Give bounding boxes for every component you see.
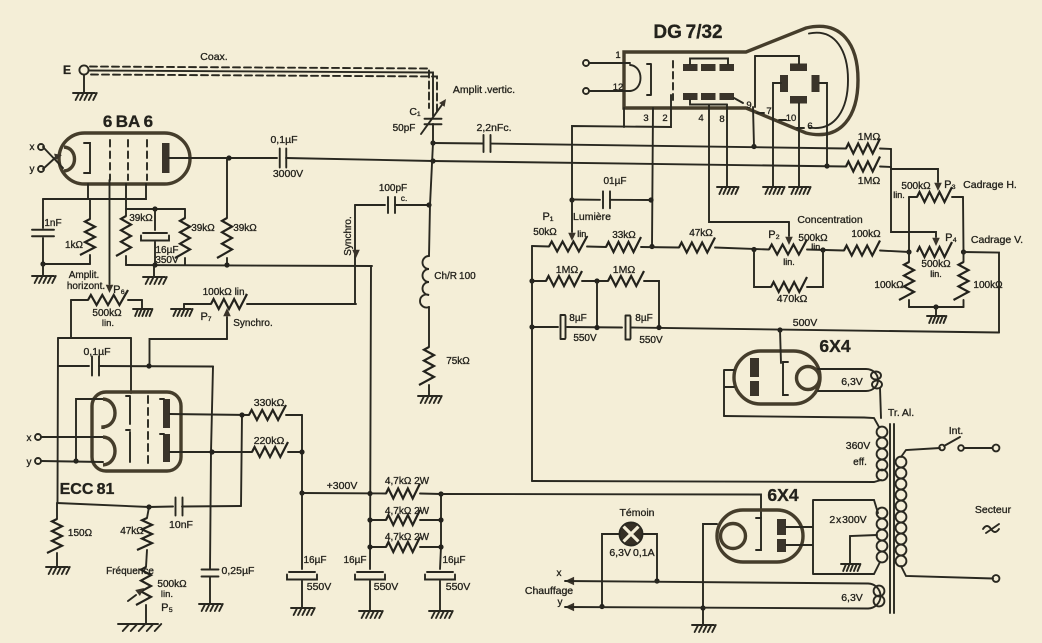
P5 wiper arrow (128, 595, 136, 601)
CRT screen inner face (809, 33, 848, 128)
capacitor 8uF 550V (a) (565, 316, 567, 338)
ground under E (83, 75, 85, 92)
svg-text:6,3V 0,1A: 6,3V 0,1A (609, 547, 654, 559)
wire P6-bus vertical (grid bias bus) (58, 337, 131, 339)
ECC81 lower anode plate (163, 434, 170, 462)
tube ECC81 envelope (92, 392, 181, 471)
CRT deflection plate bottom-3 (720, 93, 735, 100)
svg-text:P₁: P₁ (542, 211, 553, 223)
mains terminal bottom (993, 575, 1000, 582)
CRT bulb top plate link (755, 56, 799, 64)
coax shield dashed lines (90, 67, 437, 113)
potentiometer P5 500k lin (Frequence) (136, 567, 151, 605)
ground under 16uF c (429, 611, 453, 618)
6X4 lower cathode wire to ground (703, 524, 717, 624)
CRT deflection plate top-2 (701, 64, 716, 71)
capacitor 0,1uF (ECC81 grid) (58, 365, 89, 367)
resistor 33k (606, 237, 641, 252)
svg-text:50kΩ: 50kΩ (533, 227, 557, 238)
6X4 lower anode wires (786, 500, 880, 574)
heater loop right end (868, 584, 880, 609)
6X4 upper circle (797, 367, 820, 390)
tube 6BA6 envelope (59, 133, 190, 184)
svg-text:220kΩ: 220kΩ (254, 435, 285, 447)
choke Ch/R 100 (429, 143, 433, 256)
resistor 330k (170, 414, 249, 415)
terminal x of ECC81 (35, 434, 41, 440)
ECC81 upper anode plate (163, 399, 170, 428)
6X4 lower circle (721, 524, 746, 549)
CRT top plates link (690, 59, 728, 65)
ground pin8 (717, 187, 739, 194)
CRT deflection plate bottom-2 (701, 93, 716, 100)
CRT pin2 wire (wehnelt) (572, 95, 671, 200)
ground pin10 (789, 187, 811, 194)
svg-text:Synchro.: Synchro. (343, 216, 354, 255)
svg-text:P₃: P₃ (944, 179, 956, 191)
CRT bulb plate left (780, 75, 788, 92)
svg-text:47kΩ: 47kΩ (120, 526, 144, 537)
tube 6X4 lower envelope (717, 510, 803, 562)
CRT pin6 wire (820, 83, 828, 166)
svg-text:lin.: lin. (577, 229, 589, 239)
capacitor 01uF (wehnelt decoupling) (572, 199, 600, 201)
resistor 39k anode load (R-c) (226, 158, 228, 218)
svg-text:P₅: P₅ (161, 602, 173, 614)
svg-text:horizont.: horizont. (67, 281, 105, 292)
CRT wehnelt grid (647, 64, 651, 95)
CRT pin4 wire (focus) (709, 105, 789, 223)
resistor 47k (147, 507, 149, 518)
terminal y of ECC81 (35, 458, 41, 464)
CRT pin10 wire (798, 104, 800, 187)
CRT pin9 lead (734, 98, 743, 103)
wire line B: 0,1uF to 1M resistor (vert deflection line) (286, 158, 846, 167)
winding 2x300V (877, 508, 888, 519)
junction column after 4,7k (440, 494, 441, 569)
P1 wiper arrow from pin2 line (571, 200, 573, 232)
resistor 4,7k 2W (c) (370, 546, 386, 548)
svg-text:6,3V: 6,3V (841, 376, 863, 388)
capacitor 2,2nF (484, 135, 491, 152)
mains terminal top (993, 445, 1000, 452)
resistor 75k (419, 347, 434, 385)
screen bus wire (126, 208, 185, 210)
winding 360V eff (877, 427, 888, 438)
svg-text:c.: c. (401, 193, 408, 203)
svg-text:3: 3 (643, 113, 648, 124)
CRT cathode box line (623, 108, 625, 127)
6X4 lower plate 2 (777, 539, 786, 552)
winding 6,3V heater (874, 586, 885, 597)
svg-text:500kΩ: 500kΩ (901, 181, 931, 192)
6X4 upper heater stubs (724, 370, 734, 416)
ECC81 heater divider (dashed) (147, 396, 149, 467)
svg-text:x: x (557, 568, 562, 579)
svg-text:DG 7/32: DG 7/32 (653, 22, 722, 43)
6X4 upper anode wire (780, 330, 781, 363)
potentiometer P3 500k lin Cadrage H (909, 196, 917, 198)
svg-text:2: 2 (662, 113, 667, 124)
svg-text:Ch/R 100: Ch/R 100 (434, 271, 476, 282)
terminal x of 6BA6 (38, 144, 44, 150)
ECC81 grid line (126, 396, 130, 462)
svg-text:P₂: P₂ (768, 229, 780, 241)
ground under 150 (46, 567, 70, 574)
svg-text:6 BA 6: 6 BA 6 (103, 112, 153, 131)
ECC81 upper cathode (103, 399, 115, 429)
svg-text:Amplit.: Amplit. (69, 270, 100, 281)
wire +300V line to lower 6X4 anode (441, 494, 761, 518)
svg-text:Tr. Al.: Tr. Al. (888, 407, 914, 419)
svg-text:550V: 550V (307, 581, 332, 593)
CRT deflection plate top-3 (720, 64, 735, 71)
svg-text:550V: 550V (639, 335, 663, 346)
svg-text:7: 7 (766, 106, 771, 117)
6X4 upper cathode bracket (783, 362, 788, 395)
wire 1M junction down (596, 281, 598, 328)
lamp left lead (602, 534, 619, 607)
svg-text:50pF: 50pF (393, 123, 416, 134)
wire heater loop to 6,3V rect winding (880, 388, 881, 418)
svg-text:4,7kΩ 2W: 4,7kΩ 2W (385, 532, 430, 543)
potentiometer P1 50k lin Lumiere (532, 245, 549, 248)
ECC81 cathode wire (57, 503, 149, 507)
svg-text:1kΩ: 1kΩ (65, 240, 84, 251)
ground under 0,25uF (199, 604, 223, 611)
svg-text:100kΩ: 100kΩ (874, 280, 904, 291)
ground lower 6X4 cathode (692, 625, 716, 632)
CRT pin3 wire (cathode) (652, 108, 653, 247)
wire grid1 entry to ECC81 (130, 338, 132, 393)
svg-text:6,3V: 6,3V (841, 592, 863, 604)
CRT pin8 wire (726, 105, 728, 187)
resistor 47k (CRT chain) (679, 238, 715, 253)
svg-text:16µF: 16µF (443, 555, 466, 566)
svg-text:0,25µF: 0,25µF (222, 565, 255, 577)
6BA6 grid 1 electrode (84, 143, 90, 173)
capacitor 16uF 550V (b) (357, 571, 383, 573)
resistor 470k (754, 250, 771, 288)
primary winding (896, 457, 907, 468)
resistor 4,7k 2W (b) (370, 519, 386, 521)
ground under 16uF b (359, 611, 383, 618)
wire grid2 coupling down to 220k node (210, 367, 213, 570)
P2 wiper arrow (788, 222, 790, 236)
svg-text:ECC 81: ECC 81 (60, 481, 115, 498)
6BA6 anode plate (162, 143, 170, 173)
resistor 39k screen (R-a) (125, 209, 127, 216)
wire heater return to transformer (724, 416, 864, 418)
svg-text:8µF: 8µF (569, 313, 586, 324)
svg-text:y: y (558, 597, 563, 608)
svg-text:Concentration: Concentration (797, 214, 863, 226)
wire 500V rail (532, 326, 558, 328)
svg-text:100kΩ: 100kΩ (851, 229, 881, 240)
svg-text:550V: 550V (446, 581, 471, 593)
variable capacitor C1 50pF (425, 119, 442, 125)
capacitor 0,1uF 3000V (280, 149, 287, 168)
capacitor 1nF (42, 199, 44, 228)
resistor 1M filter (b) (608, 271, 644, 286)
potentiometer P4 500k lin Cadrage V (917, 242, 952, 257)
crossed input wires into 6BA6 cathode (43, 147, 63, 168)
long HT vertical (left) (531, 246, 533, 481)
svg-text:Témoin: Témoin (619, 507, 654, 519)
terminal y of 6BA6 (38, 166, 44, 172)
wire P4 right to 500V (964, 252, 1000, 333)
resistor 1M filter (a) (532, 280, 546, 282)
svg-text:0,1µF: 0,1µF (83, 346, 110, 358)
svg-text:P₄: P₄ (945, 232, 957, 244)
wire y branch up to upper triode (76, 399, 103, 461)
wire P3 left down (908, 197, 910, 252)
svg-text:Coax.: Coax. (200, 51, 227, 63)
potentiometer P7 100k lin (184, 303, 211, 305)
CRT pin7 wire (773, 83, 781, 186)
6BA6 grid 4 electrode (dashed) (146, 140, 148, 180)
svg-text:1: 1 (615, 50, 620, 61)
svg-text:E: E (63, 63, 71, 77)
svg-text:Int.: Int. (949, 425, 964, 437)
svg-text:Amplit .vertic.: Amplit .vertic. (453, 84, 515, 96)
svg-text:Cadrage V.: Cadrage V. (971, 234, 1023, 246)
capacitor 8uF 550V (b) (630, 317, 632, 339)
resistor 100k (right of P4) (963, 252, 965, 262)
CRT bulb plate bottom (790, 96, 807, 104)
coax center conductor wire (89, 71, 433, 117)
CRT deflection plate bottom-1 (683, 93, 698, 100)
lamp right lead (643, 534, 657, 581)
resistor 150 (56, 503, 58, 519)
resistor 1k cathode (89, 199, 91, 219)
svg-text:01µF: 01µF (604, 176, 627, 187)
ground P6 right (141, 300, 143, 308)
wire P6 left down to ECC81 grid bus (70, 300, 72, 338)
svg-text:y: y (30, 164, 35, 175)
svg-text:470kΩ: 470kΩ (777, 293, 808, 305)
ground P7 left (183, 304, 185, 308)
wire P3 right down (962, 197, 965, 252)
capacitor 16uF 350V (154, 209, 156, 230)
svg-text:lin.: lin. (893, 190, 905, 200)
6X4 lower plate 1 (777, 519, 786, 535)
6X4 upper heater loop (818, 369, 878, 391)
svg-text:2 x 300V: 2 x 300V (829, 514, 866, 526)
bottom bus wire to +300V drop (126, 265, 372, 266)
svg-text:330kΩ: 330kΩ (254, 397, 285, 409)
svg-text:8µF: 8µF (635, 313, 652, 324)
6X4 upper plate 1 (750, 358, 759, 377)
CRT bulb plate right (812, 75, 820, 92)
svg-text:550V: 550V (573, 333, 597, 344)
svg-text:39kΩ: 39kΩ (233, 223, 257, 234)
svg-text:Secteur: Secteur (975, 504, 1012, 516)
wire 1M-B to P3 wiper (891, 167, 938, 182)
resistor 100k (left of P4) (908, 252, 910, 262)
svg-text:100kΩ lin.: 100kΩ lin. (203, 287, 248, 298)
svg-text:eff.: eff. (853, 457, 867, 468)
svg-text:16µF: 16µF (344, 555, 367, 566)
svg-text:1nF: 1nF (44, 218, 61, 229)
tube 6X4 upper envelope (734, 351, 820, 404)
svg-text:1MΩ: 1MΩ (858, 131, 881, 143)
ground under 100k pair (935, 307, 937, 315)
svg-text:47kΩ: 47kΩ (689, 228, 713, 239)
wire y input to ECC81 (41, 461, 103, 462)
svg-text:lin.: lin. (783, 257, 795, 267)
wire +300V line (302, 492, 386, 495)
ground pin7 (763, 187, 785, 194)
wire 10nF to 330k junction (241, 415, 242, 506)
svg-text:1MΩ: 1MΩ (556, 264, 579, 276)
potentiometer P2 500k lin Concentration (769, 240, 807, 255)
svg-text:x: x (27, 433, 32, 444)
capacitor 10nF (146, 504, 151, 509)
resistor 100k (chain) (844, 241, 880, 256)
svg-text:1MΩ: 1MΩ (613, 264, 636, 276)
CRT heater pin 12 (583, 88, 589, 94)
wire anode loads to +300V node (301, 415, 303, 493)
wire 100k pair bottom (909, 306, 964, 308)
svg-text:0,1µF: 0,1µF (270, 134, 297, 146)
svg-text:6: 6 (807, 121, 812, 132)
resistor 1M (line B) (846, 157, 880, 172)
capacitor 0,25uF (202, 570, 219, 577)
6BA6 cathode bus wire (43, 184, 146, 199)
svg-text:33kΩ: 33kΩ (612, 230, 636, 241)
capacitor 16uF 550V (c) (427, 571, 453, 573)
wire 1M-A down to P4 wiper (891, 149, 936, 237)
wire x input to ECC81 (41, 436, 103, 438)
CRT bulb plate top (790, 64, 807, 72)
input terminal E (79, 65, 88, 74)
svg-text:9: 9 (746, 100, 751, 111)
svg-text:6X4: 6X4 (819, 336, 850, 356)
ground node 1nF/1k (43, 263, 90, 265)
6BA6 grid 2 electrode (dashed) (109, 140, 111, 180)
svg-text:75kΩ: 75kΩ (446, 356, 470, 367)
ground under 75k (418, 396, 442, 403)
svg-text:Synchro.: Synchro. (233, 318, 272, 329)
svg-text:12: 12 (613, 82, 624, 93)
svg-text:lin.: lin. (930, 269, 942, 279)
svg-text:P₆: P₆ (113, 284, 125, 296)
svg-text:2,2nFc.: 2,2nFc. (476, 122, 511, 134)
wire P7 wiper to ECC81 grid2 node (150, 339, 228, 366)
heater line y (565, 603, 574, 611)
svg-text:y: y (27, 457, 32, 468)
CRT cathode arc (630, 65, 641, 91)
svg-text:360V: 360V (846, 440, 871, 452)
resistor 220k (170, 451, 252, 453)
CRT first anode (dashed) (672, 61, 674, 100)
CRT envelope (624, 26, 858, 134)
ground on bottom bus (153, 265, 155, 276)
svg-text:6X4: 6X4 (767, 485, 798, 505)
svg-text:4,7kΩ 2W: 4,7kΩ 2W (385, 476, 430, 487)
2x300V center tap (850, 535, 877, 563)
potentiometer P6 500k lin (71, 299, 88, 301)
ground under 16uF a (291, 608, 315, 615)
6BA6 screen grid wire (125, 184, 127, 209)
6BA6 grid 3 electrode (dashed) (127, 140, 129, 180)
capacitor 100pF (355, 204, 385, 206)
wire line A: C1 junction to 1M resistor (433, 142, 483, 145)
svg-text:Chauffage: Chauffage (525, 585, 573, 597)
svg-text:3000V: 3000V (273, 168, 303, 180)
6BA6 anode wire to coupling cap (169, 157, 277, 159)
svg-text:10: 10 (786, 113, 797, 124)
HT dropper bus vertical (370, 266, 371, 569)
svg-text:550V: 550V (374, 581, 399, 593)
svg-text:39kΩ: 39kΩ (129, 213, 153, 224)
svg-text:4,7kΩ 2W: 4,7kΩ 2W (385, 506, 430, 517)
P7 wiper arrow (226, 317, 228, 339)
svg-text:lin.: lin. (102, 318, 114, 329)
CRT heater pin 1 (583, 60, 589, 66)
svg-text:39kΩ: 39kΩ (191, 223, 215, 234)
CRT bottom plates link (690, 100, 727, 105)
svg-text:1MΩ: 1MΩ (858, 175, 881, 187)
ECC81 lower cathode (103, 437, 115, 465)
svg-text:P₇: P₇ (200, 311, 211, 323)
6BA6 grid wire down to P6 wiper (109, 180, 111, 284)
synchro tap wire from 100pF (354, 205, 356, 304)
svg-text:Cadrage H.: Cadrage H. (963, 179, 1017, 191)
svg-text:8: 8 (719, 114, 724, 125)
wide ground under P5 (118, 624, 161, 631)
svg-text:10nF: 10nF (169, 519, 193, 531)
svg-text:4: 4 (698, 113, 703, 124)
svg-text:lin.: lin. (161, 589, 173, 600)
6BA6 cathode (64, 147, 75, 171)
capacitor 16uF 550V (a) (301, 493, 303, 569)
ground 2x300V tap (841, 564, 860, 571)
svg-text:x: x (30, 142, 35, 153)
svg-text:150Ω: 150Ω (68, 528, 93, 539)
svg-text:C₁: C₁ (409, 106, 421, 118)
svg-text:+300V: +300V (327, 480, 358, 492)
svg-text:500V: 500V (793, 317, 818, 329)
CRT deflection plate top-1 (683, 64, 698, 71)
resistor 1M (line A) (846, 139, 880, 154)
svg-text:Fréquence: Fréquence (106, 566, 154, 577)
heater line x (565, 577, 574, 585)
6X4 upper plate 2 (750, 381, 759, 396)
transformer core (890, 424, 894, 613)
svg-text:16µF: 16µF (304, 555, 327, 566)
svg-text:Lumière: Lumière (573, 211, 611, 223)
resistor 4,7k 2W (a) (386, 484, 420, 499)
resistor 39k (R-b) (184, 209, 186, 218)
6X4 lower cathode bracket (756, 518, 761, 550)
svg-text:lin.: lin. (811, 242, 823, 252)
